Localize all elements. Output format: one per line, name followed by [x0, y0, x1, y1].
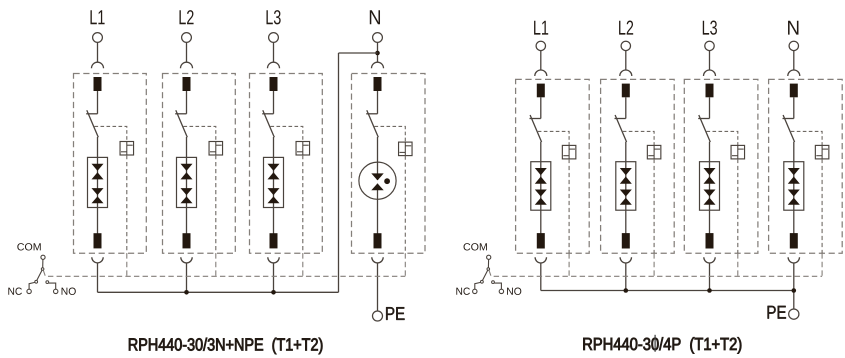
- label NO (right): [507, 288, 521, 295]
- plug-in connection arc top 3 (left): [268, 62, 280, 68]
- varistor (MOV) 3 (right): [700, 162, 720, 211]
- wire 4 (right) switch to bottom terminal: [793, 142, 795, 234]
- dashed signal line inside 1 (left): [126, 155, 128, 253]
- dashed link switch to indicator 2 (left): [184, 126, 216, 141]
- dashed signal line below 1 (left): [126, 253, 128, 276]
- label PE (left): [386, 307, 404, 320]
- caption right diagram: [583, 337, 741, 353]
- SPD module 4 (right) enclosure (dashed): [769, 79, 843, 253]
- thermal disconnector switch 1 (left): [86, 110, 98, 137]
- thermal disconnector switch 3 (right): [698, 115, 710, 142]
- terminal label L3 (left diagram): [266, 10, 280, 24]
- terminal L3 circle (left): [269, 33, 279, 43]
- wire 1 (left) terminal to disconnector: [97, 91, 99, 114]
- dashed signal line inside 1 (right): [568, 159, 570, 253]
- wire terminal L3 lead (right): [709, 50, 711, 70]
- dashed signal line below 3 (right): [737, 253, 739, 276]
- label COM (left): [17, 243, 40, 250]
- dashed signal line inside 3 (right): [737, 159, 739, 253]
- text cursor caret in caption: [654, 335, 656, 352]
- varistor (MOV) 1 (left): [88, 157, 108, 207]
- wire terminal L2 lead (left): [186, 42, 188, 62]
- PE terminal circle (right): [789, 309, 799, 319]
- terminal block bottom 1 (left): [94, 233, 102, 248]
- wire 4 (left) spark gap electrode to bottom terminal: [377, 184, 379, 235]
- terminal L1 circle (left): [93, 33, 103, 43]
- plug-in connection arc bottom 2 (left): [181, 257, 192, 263]
- dashed link switch to indicator 3 (right): [707, 131, 738, 145]
- dashed link switch to indicator 4 (right): [791, 131, 822, 145]
- terminal block top 1 (left): [94, 77, 102, 91]
- wire terminal L2 lead (right): [625, 50, 627, 70]
- SPD module 3 (left) enclosure (dashed): [250, 74, 323, 254]
- wire module 3 to bus (right): [709, 263, 711, 291]
- dashed signal line inside 2 (left): [215, 155, 217, 253]
- thermal disconnector switch 2 (right): [615, 115, 627, 142]
- terminal block bottom 2 (left): [183, 233, 191, 248]
- wire 4 (left) switch to spark gap electrode: [377, 137, 379, 180]
- plug-in connection arc bottom 4 (left): [372, 257, 383, 263]
- SPD module 3 (right) enclosure (dashed): [684, 79, 758, 253]
- status contact square 1 (right): [562, 145, 576, 159]
- plug-in connection arc top 4 (left): [372, 62, 384, 68]
- dashed signal line below 4 (left): [404, 253, 406, 276]
- plug-in connection arc bottom 1 (left): [92, 257, 103, 263]
- terminal label N (right diagram): [788, 21, 798, 35]
- varistor (MOV) 4 (right): [784, 162, 804, 211]
- status contact square 3 (right): [731, 145, 745, 159]
- dashed signal line below 2 (right): [653, 253, 655, 276]
- dashed signal line below 2 (left): [215, 253, 217, 276]
- SPD module 1 (right) enclosure (dashed): [516, 79, 590, 253]
- terminal block bottom 3 (left): [270, 233, 278, 248]
- plug-in connection arc top 2 (left): [181, 62, 193, 68]
- SPD module 4 (left) enclosure (dashed): [352, 74, 426, 254]
- SPD module 2 (right) enclosure (dashed): [601, 79, 675, 253]
- wire 3 (right) switch to bottom terminal: [709, 142, 711, 234]
- caption left diagram: [129, 338, 322, 354]
- label NC (right): [456, 288, 470, 295]
- junction dot module 3 bus (right): [707, 288, 712, 293]
- terminal label L2 (right diagram): [619, 20, 633, 34]
- junction dot module 2 bus (right): [624, 288, 629, 293]
- plug-in connection arc top 1 (left): [92, 62, 104, 68]
- gas discharge tube 4 (left): [359, 162, 396, 199]
- remote signalling contact COM/NC/NO (right): [473, 255, 504, 293]
- plug-in connection arc top 2 (right): [620, 70, 632, 76]
- status contact square 4 (left): [399, 142, 413, 156]
- label NO (left): [62, 288, 76, 295]
- wire module 1 to bus (left): [97, 263, 99, 293]
- wire N junction to riser (left): [339, 52, 378, 54]
- varistor (MOV) 1 (right): [531, 162, 551, 211]
- wire module 2 to bus (left): [186, 263, 188, 293]
- SPD module 1 (left) enclosure (dashed): [74, 74, 147, 254]
- wire 3 (left) terminal to disconnector: [273, 91, 275, 114]
- terminal block bottom 1 (right): [537, 233, 545, 248]
- thermal disconnector switch 4 (left): [366, 110, 378, 137]
- node N junction dot (left): [375, 51, 380, 56]
- plug-in connection arc bottom 2 (right): [620, 257, 631, 263]
- label PE (right): [768, 306, 786, 319]
- terminal label L3 (right diagram): [703, 20, 717, 34]
- varistor (MOV) 2 (right): [616, 162, 636, 211]
- terminal label N (left diagram): [370, 10, 380, 24]
- thermal disconnector switch 4 (right): [783, 115, 795, 142]
- junction dot PE branch (right): [792, 288, 797, 293]
- wire 3 (left) switch to bottom terminal: [273, 137, 275, 234]
- status contact square 2 (right): [647, 145, 661, 159]
- terminal block bottom 4 (left): [374, 233, 382, 248]
- wire module 3 to bus (left): [273, 263, 275, 293]
- plug-in connection arc bottom 4 (right): [788, 257, 799, 263]
- terminal L3 circle (right): [705, 41, 714, 50]
- dashed signal line inside 4 (left): [404, 156, 406, 254]
- wire bottom bus (left): [98, 291, 339, 293]
- status contact square 3 (left): [296, 142, 310, 156]
- status contact square 2 (left): [209, 142, 223, 156]
- junction dot module 3 bus (left): [271, 290, 276, 295]
- plug-in connection arc top 4 (right): [788, 70, 800, 76]
- terminal block bottom 4 (right): [790, 233, 798, 248]
- plug-in connection arc bottom 3 (right): [704, 257, 715, 263]
- varistor (MOV) 3 (left): [264, 157, 284, 207]
- PE terminal circle (left): [373, 311, 383, 321]
- terminal label L1 (left diagram): [90, 10, 104, 24]
- dashed signal bus (left): [43, 271, 405, 277]
- terminal block top 4 (left): [374, 77, 382, 91]
- terminal label L2 (left diagram): [179, 10, 193, 24]
- remote signalling contact COM/NC/NO (left): [27, 255, 58, 293]
- dashed link switch to indicator 3 (left): [271, 126, 303, 141]
- dashed signal line inside 4 (right): [821, 159, 823, 253]
- wire 3 (right) terminal to disconnector: [709, 97, 711, 118]
- terminal N circle (right): [789, 41, 798, 50]
- dashed link switch to indicator 2 (right): [623, 131, 654, 145]
- wire 2 (left) switch to bottom terminal: [186, 137, 188, 234]
- plug-in connection arc bottom 1 (right): [535, 257, 546, 263]
- wire 4 (left) terminal to disconnector: [377, 91, 379, 114]
- wire terminal L1 lead (left): [97, 42, 99, 62]
- dashed signal line inside 3 (left): [302, 155, 304, 253]
- wire terminal L3 lead (left): [273, 42, 275, 62]
- plug-in connection arc top 1 (right): [535, 70, 547, 76]
- status contact square 1 (left): [120, 142, 134, 156]
- dashed signal line below 1 (right): [568, 253, 570, 276]
- terminal block top 3 (right): [706, 84, 714, 98]
- thermal disconnector switch 2 (left): [175, 110, 187, 137]
- terminal L1 circle (right): [536, 41, 545, 50]
- plug-in connection arc top 3 (right): [704, 70, 716, 76]
- dashed signal line below 3 (left): [302, 253, 304, 276]
- varistor (MOV) 2 (left): [177, 157, 197, 207]
- wire 1 (left) switch to bottom terminal: [97, 137, 99, 234]
- terminal block top 1 (right): [537, 84, 545, 98]
- terminal block top 4 (right): [790, 84, 798, 98]
- wire terminal L1 lead (right): [540, 50, 542, 70]
- terminal block top 2 (left): [183, 77, 191, 91]
- label NC (left): [8, 288, 22, 295]
- junction dot module 2 bus (left): [184, 290, 189, 295]
- wire riser (left): [338, 53, 340, 292]
- dashed link switch to indicator 1 (left): [95, 126, 127, 141]
- dashed signal bus (right): [489, 271, 822, 277]
- thermal disconnector switch 1 (right): [530, 115, 542, 142]
- status contact square 4 (right): [815, 145, 829, 159]
- terminal block top 2 (right): [622, 84, 630, 98]
- wire N module to PE (left): [377, 263, 379, 312]
- wire module 1 to bus (right): [540, 263, 542, 291]
- terminal block bottom 3 (right): [706, 233, 714, 248]
- wire bottom bus (right): [541, 290, 794, 292]
- plug-in connection arc bottom 3 (left): [268, 257, 279, 263]
- dashed link switch to indicator 4 (left): [375, 126, 406, 142]
- wire terminal N lead (right): [793, 50, 795, 70]
- dashed link switch to indicator 1 (right): [538, 131, 569, 145]
- terminal L2 circle (left): [182, 33, 192, 43]
- wire module 2 to bus (right): [625, 263, 627, 291]
- wire module 4 to bus (right): [793, 263, 795, 309]
- wire 4 (right) terminal to disconnector: [793, 97, 795, 118]
- wire 2 (right) switch to bottom terminal: [625, 142, 627, 234]
- terminal block top 3 (left): [270, 77, 278, 91]
- terminal block bottom 2 (right): [622, 233, 630, 248]
- dashed signal line below 4 (right): [821, 253, 823, 276]
- wire 1 (right) switch to bottom terminal: [540, 142, 542, 234]
- terminal label L1 (right diagram): [534, 21, 548, 35]
- SPD module 2 (left) enclosure (dashed): [163, 74, 236, 254]
- label COM (right): [464, 243, 487, 250]
- dashed signal line inside 2 (right): [653, 159, 655, 253]
- wire 1 (right) terminal to disconnector: [540, 97, 542, 118]
- wire terminal N lead (left): [377, 42, 379, 62]
- terminal N circle (left): [373, 33, 383, 43]
- wire 2 (left) terminal to disconnector: [186, 91, 188, 114]
- terminal L2 circle (right): [621, 41, 630, 50]
- thermal disconnector switch 3 (left): [262, 110, 274, 137]
- wire 2 (right) terminal to disconnector: [625, 97, 627, 118]
